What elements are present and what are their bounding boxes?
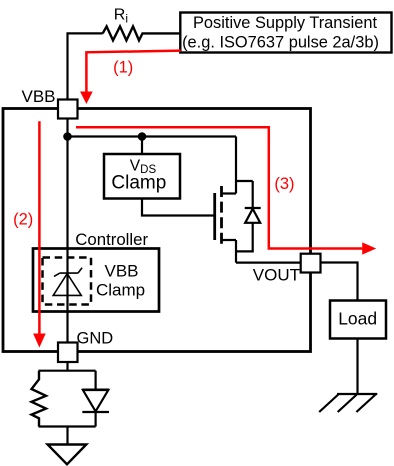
svg-text:Clamp: Clamp: [96, 280, 145, 299]
svg-text:(e.g. ISO7637 pulse 2a/3b): (e.g. ISO7637 pulse 2a/3b): [182, 33, 379, 51]
svg-text:Load: Load: [338, 309, 377, 329]
svg-text:VBB: VBB: [22, 87, 56, 106]
svg-text:GND: GND: [77, 330, 114, 348]
svg-text:Positive Supply Transient: Positive Supply Transient: [193, 14, 377, 32]
svg-text:(3): (3): [274, 175, 294, 193]
svg-text:(1): (1): [113, 58, 133, 76]
svg-text:(2): (2): [13, 210, 33, 228]
svg-text:Controller: Controller: [75, 230, 148, 249]
svg-text:Ri: Ri: [114, 6, 128, 25]
svg-text:VOUT: VOUT: [253, 266, 300, 285]
svg-text:Clamp: Clamp: [111, 173, 166, 194]
svg-text:VBB: VBB: [105, 262, 139, 281]
